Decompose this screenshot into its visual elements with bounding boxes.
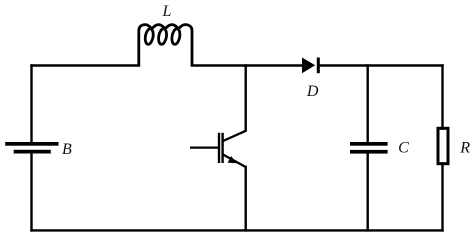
inductor L coil bbox=[139, 25, 192, 66]
svg-text:L: L bbox=[161, 3, 171, 20]
wire transistor collector vertical bbox=[244, 66, 246, 131]
battery B bottom plate bbox=[14, 150, 51, 154]
transistor gate bar bbox=[218, 133, 220, 163]
transistor collector diagonal bbox=[223, 131, 246, 141]
diode D cathode bar bbox=[317, 58, 320, 74]
capacitor C bottom plate bbox=[350, 150, 388, 154]
wire left vertical (battery to bottom wire) bbox=[30, 154, 32, 231]
transistor emitter diagonal bbox=[223, 155, 246, 168]
wire left vertical (top wire to battery) bbox=[30, 66, 32, 143]
diode D triangle bbox=[302, 58, 315, 74]
svg-text:D: D bbox=[306, 83, 319, 100]
svg-text:B: B bbox=[62, 141, 72, 158]
wire bottom horizontal bbox=[32, 229, 443, 231]
transistor gate stub wire bbox=[190, 146, 218, 148]
wire top right (diode cathode to top-right corner) bbox=[320, 64, 443, 66]
transistor body bar bbox=[221, 133, 223, 163]
resistor R box bbox=[438, 128, 448, 163]
svg-text:C: C bbox=[398, 140, 409, 157]
wire capacitor top vertical bbox=[367, 66, 369, 143]
wire right vertical (resistor to bottom) bbox=[441, 164, 443, 231]
capacitor C top plate bbox=[350, 142, 388, 146]
wire top middle (inductor to diode anode) bbox=[192, 64, 302, 66]
wire capacitor bottom vertical bbox=[367, 154, 369, 231]
wire transistor emitter vertical bbox=[244, 167, 246, 230]
transistor emitter arrow bbox=[228, 156, 237, 163]
battery B top plate bbox=[5, 142, 58, 146]
wire right vertical (top to resistor) bbox=[441, 66, 443, 129]
svg-text:R: R bbox=[459, 140, 470, 157]
wire top-left horizontal (battery top to inductor) bbox=[32, 64, 139, 66]
